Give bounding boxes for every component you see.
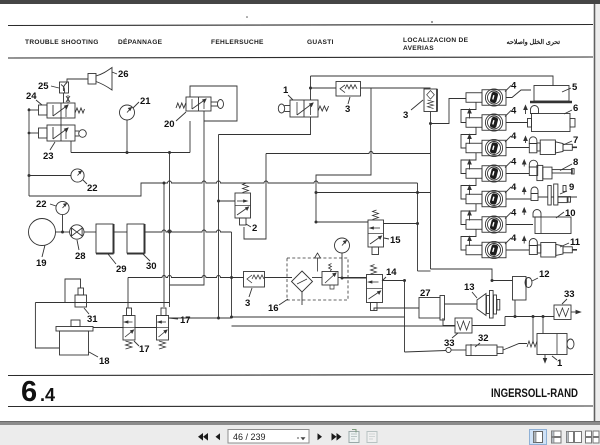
compressor circle 19 [29,219,56,246]
wire stair 1 [461,102,476,122]
label 8 [560,157,578,171]
label 4 unit6 [505,208,517,219]
spring of 24 [75,108,85,113]
air motor 4 unit5 [466,190,506,207]
wire motor4 out [506,173,529,175]
staircase feeds [461,102,476,250]
svg-text:4: 4 [511,182,517,193]
label 33l [444,333,458,349]
arrow dev10 [523,208,526,215]
fitting dev6 [531,106,539,114]
muffler 31 [75,288,87,307]
main bus y153 [71,152,190,154]
wire motor6 out [506,224,533,226]
x404 drop [404,281,406,353]
toolbar page box [228,430,309,444]
3v down wire [430,112,432,270]
device 5 [530,86,572,103]
wire return loop [29,183,164,196]
valve 20 [186,97,224,111]
label 31 [84,308,98,325]
shutoff valve 28 [70,225,84,239]
drop x231 [231,232,233,317]
wire 28 to 29 [84,231,96,233]
label 21 [133,96,151,108]
arrow dev6 [524,106,527,115]
label 6 [564,103,578,114]
svg-text:8: 8 [573,157,578,168]
label 16 [268,299,288,314]
svg-text:6: 6 [573,103,578,114]
svg-text:24: 24 [26,91,37,102]
label 20 [164,112,186,130]
wire stair 5 [461,204,476,225]
flow control 25 [60,82,69,93]
gauge 22a [71,169,84,182]
layout icon two-up [567,432,582,443]
supply bus y232 [56,231,70,233]
valve14 feed [342,277,367,279]
svg-text:DÉPANNAGE: DÉPANNAGE [118,37,163,46]
svg-text:22: 22 [36,199,47,210]
svg-text:18: 18 [99,356,110,367]
label 15 [384,235,401,246]
air motor 4 unit2 [466,114,506,131]
label 5 [562,82,578,93]
svg-text:3: 3 [345,104,350,115]
arrow dev7 [524,137,527,144]
label 18 [89,352,110,367]
lubricator 18 [56,320,93,355]
svg-text:AVERIAS: AVERIAS [403,45,434,52]
wire bus to 23 [29,132,39,134]
svg-text:29: 29 [116,264,127,275]
footer rules [8,375,593,407]
svg-text:32: 32 [478,333,489,344]
svg-text:25: 25 [38,81,49,92]
wire 32 to 1b [503,344,527,351]
svg-text:30: 30 [146,261,157,272]
wire 29 to 30 [114,231,127,233]
arrow dev11 [523,237,526,244]
wire motor2 out [506,122,528,124]
drop x218 [218,135,220,319]
bus183 step down [417,183,419,193]
long drop x204 [170,121,205,285]
wire 17b right to bus [169,317,232,319]
silencer 33l [455,318,472,333]
svg-text:19: 19 [36,258,47,269]
svg-text:15: 15 [390,235,401,246]
svg-text:13: 13 [464,282,475,293]
wire to gauge22a [29,175,71,177]
gauge 21 [120,105,135,120]
wire 24 to 23 [60,118,62,125]
label 23 [43,142,55,162]
wire motor7 out [506,249,529,251]
label 25 [38,81,59,92]
vent triangle [315,253,321,272]
wire 33l [443,318,455,326]
valve14 bottom to 27 [374,308,419,311]
svg-text:7: 7 [573,135,578,146]
branch up to valve20 loop [189,121,191,153]
label 4 unit3 [505,131,517,142]
bus y302 [35,302,169,304]
fitting dev7 [529,137,537,144]
svg-text:.4: .4 [40,385,55,405]
top dark bar [0,0,600,4]
spring valve14 [371,265,377,275]
label 3c [245,288,252,309]
label 7 [563,135,578,146]
segment y153 right [266,152,431,154]
clutch 13 [472,291,500,319]
svg-text:1: 1 [283,85,289,96]
valve 17a [123,308,135,340]
svg-text:4: 4 [511,157,517,168]
label 11 [560,237,581,248]
label 12 [532,269,550,281]
wire 18 to valve17a [93,327,123,329]
label 4 unit1 [505,81,517,92]
svg-text:4: 4 [511,233,517,244]
toolbar nav: next / last [318,433,342,441]
wire 27 to 13 [445,303,473,305]
arrow dev9 [523,188,526,195]
label 4 unit2 [505,106,517,117]
drop x164 [163,183,165,307]
tank 29 [96,224,114,254]
silencer 33r [554,305,581,320]
wire bank to 12 [431,269,493,281]
filter diamond [292,271,313,305]
svg-text:33: 33 [564,289,575,300]
svg-text:4: 4 [511,208,517,219]
label 9 [560,182,574,194]
label 17b [169,315,191,326]
label 14 [382,267,397,281]
fitting dev10 [533,210,541,218]
wire left supply bus [28,108,30,196]
layout icon single page (active) [530,430,547,445]
label 22a [83,180,98,194]
label 28 [75,240,86,262]
wire stair 2 [461,127,476,148]
svg-text:4: 4 [511,81,517,92]
spring 17b [159,341,166,349]
wire loop 31 [65,279,81,303]
svg-text:17: 17 [180,315,191,326]
svg-text:12: 12 [539,269,550,280]
gauge wire down [341,253,343,278]
wire 17a to 17b [135,327,157,329]
node dot gauge21 [126,151,129,154]
toolbar nav: first page [198,433,220,441]
spring of 20 [176,103,186,108]
air motor 4 unit1 [466,89,506,106]
svg-text:5: 5 [572,82,578,93]
wire y316 to 33r and 1b [505,316,554,318]
label 3h [345,97,350,115]
bottom divider [0,422,600,426]
regulator [322,264,338,290]
device 8 [529,165,574,180]
wire motor3 out [506,147,529,149]
label 29 [108,254,127,275]
spring 17a [126,341,133,349]
svg-text:GUASTI: GUASTI [307,39,334,46]
long bottom buses [232,316,405,318]
tank 27 [419,296,445,321]
arrow up stair 3 [468,160,471,170]
label 27 [420,288,431,299]
svg-text:10: 10 [565,208,576,219]
valve1 drain [219,117,311,135]
wire stair 6 [461,229,476,250]
gauge 22b [56,201,69,214]
bus y232 to x231 [145,230,232,232]
wire gauge21 down [126,120,128,153]
exhaust star [66,95,70,103]
svg-text:28: 28 [75,251,86,262]
layout icon continuous [552,431,562,443]
device 7 [529,140,577,155]
check valve 3c [244,272,265,288]
air motor 4 unit7 [466,241,506,258]
spring valve2 [243,183,249,193]
svg-text:22: 22 [87,183,98,194]
air motor 4 unit4 [466,165,506,182]
label 26 [112,69,129,80]
label 3v [403,100,423,121]
svg-text:16: 16 [268,303,279,314]
main lube line y278 [128,276,244,278]
label 1b [552,356,563,369]
label 4 unit7 [505,233,517,244]
svg-text:46 / 239: 46 / 239 [233,432,266,442]
feed to motor unit1 [431,99,467,124]
layout icon two-up continuous [586,431,600,443]
valve14 right wire [383,280,405,282]
label 33r [562,289,575,304]
6.4 page number [21,376,578,408]
wire motor5 out [506,198,531,200]
y192 link [316,192,431,194]
svg-text:6: 6 [21,376,37,408]
node dot x169 [168,151,171,154]
svg-text:11: 11 [570,237,581,248]
svg-text:21: 21 [140,96,151,107]
svg-text:3: 3 [245,298,250,309]
device 11 [529,243,577,258]
fitting dev11 [529,239,537,246]
device 6 [528,114,576,132]
dashed FRL box 16 [287,258,348,300]
wire bus to 24 [29,109,39,111]
label 30 [143,254,157,272]
label 22b [36,199,56,210]
wire motor1 out [506,90,531,98]
wire x371 from 3h rail down [316,88,371,222]
valve 23 [39,125,87,141]
header rules [8,25,593,59]
wire 25 to valve 24 [63,93,65,103]
drop x169.5 [169,153,171,308]
wire stair 4 [461,178,476,199]
label 10 [556,208,576,219]
valve 14 [367,275,383,311]
wire 12 down [514,300,516,317]
label 2 [246,223,257,234]
svg-text:تحرى الخلل واصلاحه: تحرى الخلل واصلاحه [507,39,561,46]
cylinder 32 [446,344,503,356]
valve15 left feed [316,221,368,223]
svg-text:INGERSOLL-RAND: INGERSOLL-RAND [491,386,578,400]
gauge center [335,238,350,253]
valve 24 [39,103,76,118]
svg-text:31: 31 [87,314,98,325]
spring valve1 [318,106,329,111]
main bus y183 [141,181,418,183]
device 9 crankshaft [531,184,577,205]
svg-text:FEHLERSUCHE: FEHLERSUCHE [211,39,264,46]
wire 3h to 3v [361,87,431,89]
check valve 3h [336,82,361,97]
wire to check box3h [311,87,337,89]
right page edge line [594,4,596,421]
svg-text:1: 1 [557,358,563,369]
air motor 4 unit3 [466,139,506,156]
valve20 loop [190,86,237,121]
wire horn to valve 25 [67,79,88,82]
wire 23 to bus153 [70,141,72,153]
device 10 [535,217,571,234]
svg-text:23: 23 [43,151,54,162]
svg-text:2: 2 [252,223,257,234]
svg-text:4: 4 [511,131,517,142]
fitting dev8 [529,160,537,167]
svg-text:20: 20 [164,119,175,130]
valve 1 top [278,100,318,117]
arrow up stair 2 [468,135,471,145]
valve 2 [235,193,251,225]
valve 15 [368,220,384,255]
label 17a [134,341,150,355]
svg-text:9: 9 [569,182,574,193]
svg-text:14: 14 [386,267,397,278]
valve 17b [157,308,169,340]
label 19 [36,245,47,269]
arrow dev8 [523,160,526,167]
regulator 1b [527,334,574,363]
drop x128 to valve17a [127,278,129,309]
svg-text:26: 26 [118,69,129,80]
tank 30 [127,224,145,254]
label 32 [475,333,489,347]
governor 12 [513,277,533,301]
valve1 top wire [310,76,312,100]
wire gauge22b down [62,215,64,232]
svg-text:4: 4 [511,106,517,117]
air motor 4 unit6 [466,216,506,233]
fitting dev9 [531,187,538,194]
top rail y76 [311,76,554,86]
wire x404 to 32 [405,351,447,353]
svg-text:27: 27 [420,288,431,299]
arrow up stair 4 [468,186,471,196]
arrow up stair 6 [468,237,471,247]
header speck [246,16,248,18]
label 4 unit5 [505,182,517,193]
header titles [25,37,560,52]
arrow up stair 1 [468,109,471,119]
label 1 top [283,85,293,100]
drop x266 to valve2 drain [244,154,266,240]
label 13 [464,282,477,298]
check valve 3v [424,89,437,112]
horn 26 [88,68,112,91]
feed valve2 [219,200,236,202]
svg-text:TROUBLE SHOOTING: TROUBLE SHOOTING [25,39,99,46]
label 24 [26,91,42,105]
svg-text:17: 17 [139,344,150,355]
wire stair 3 [461,153,476,174]
arrow up stair 5 [468,211,471,221]
label 4 unit4 [505,157,517,168]
svg-text:3: 3 [403,110,408,121]
spring valve15 [373,210,379,220]
valve15 right wire [384,223,418,225]
wire L to lubricator [35,303,59,349]
x417 drop [417,193,419,272]
toolbar view history icons [349,430,377,443]
svg-text:LOCALIZACION DE: LOCALIZACION DE [403,37,469,44]
